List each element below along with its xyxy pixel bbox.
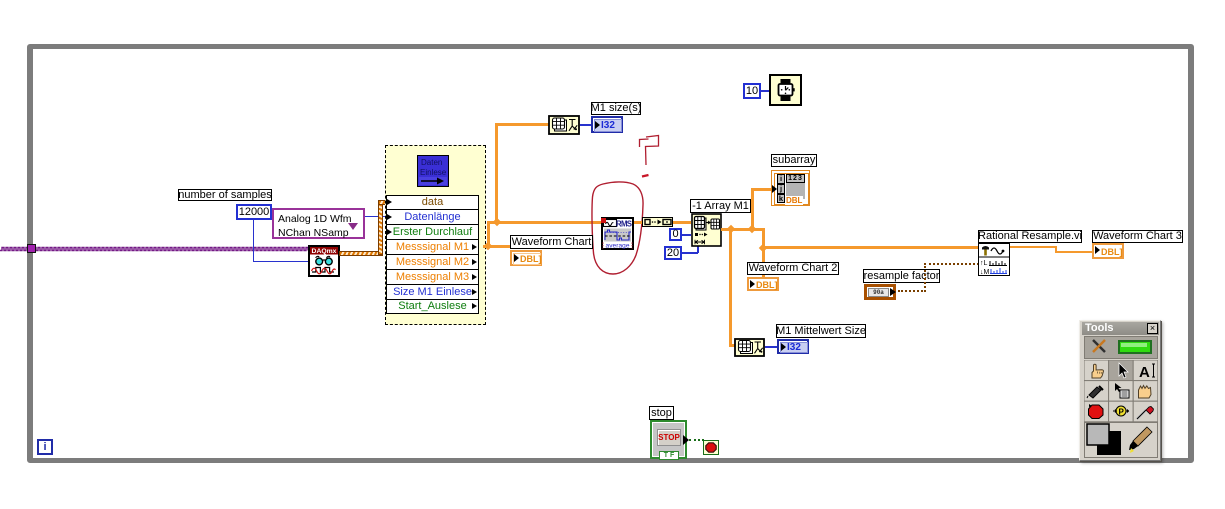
label number of samples (178, 189, 272, 201)
constant 0 (669, 228, 682, 241)
svg-text:Daten: Daten (421, 158, 442, 167)
svg-text:average: average (606, 243, 630, 250)
blue wire array size to I32 (580, 124, 592, 126)
row Start_Auslese (386, 299, 479, 314)
row Messsignal M1 (386, 239, 479, 255)
row Datenlaenge (386, 209, 479, 225)
I32 indicator M1 size(s) (591, 116, 623, 133)
wire vertical to array size (495, 123, 498, 223)
coercion dot on RMS input (601, 218, 606, 223)
array subset node (691, 213, 722, 247)
row Messsignal M3 (386, 269, 479, 285)
color area (1084, 422, 1158, 458)
label Rational Resample.vi (978, 230, 1082, 243)
label M1 size(s) (591, 102, 641, 115)
constant 20 (664, 246, 682, 260)
I32 indicator M1 Mittelwert Size (777, 339, 809, 354)
convert from dynamic data node (642, 217, 673, 227)
eyedropper (1137, 410, 1146, 419)
svg-text:RMS: RMS (616, 219, 632, 228)
blue wire to I32 (765, 346, 777, 348)
label M1 Mittelwert Size (776, 324, 866, 338)
waveform-array hatched wire DAQmx to data (339, 251, 383, 256)
red annotation flag (630, 130, 670, 185)
breakpoint octagon (1089, 405, 1104, 419)
polymorphic selector Analog 1D Wfm NChan NSamp (272, 208, 365, 239)
loop tunnel (purple) (27, 244, 36, 253)
wire vertical to upper branch (487, 221, 490, 248)
svg-text:↓M: ↓M (980, 269, 990, 276)
operate hand (1092, 364, 1103, 378)
horizontal to rational resample (762, 246, 978, 249)
probe (1116, 406, 1126, 416)
RMS express node (601, 217, 634, 250)
vertical down to array size 2 (729, 228, 732, 346)
iteration terminal i (37, 439, 53, 455)
wire spool (1089, 387, 1101, 398)
label subarray (771, 154, 817, 167)
row data (386, 195, 479, 210)
wire 20 to node (682, 252, 698, 254)
wire from-DDT to array subset (673, 221, 691, 224)
input arrows (387, 199, 392, 205)
svg-text:A: A (1139, 364, 1150, 381)
DAQmx Read node (308, 245, 340, 277)
Tools palette (1079, 320, 1161, 461)
label -1 Array M1 (690, 199, 751, 213)
constant 12000 (236, 204, 272, 220)
Wait (ms) node (769, 74, 802, 106)
junction (493, 218, 501, 226)
label resample factor (863, 269, 940, 283)
svg-text:DAQmx: DAQmx (312, 248, 337, 255)
tool grid (1084, 360, 1158, 422)
wire into DAQmx samples input (253, 261, 308, 262)
auto tool row (1084, 336, 1158, 359)
subarray array indicator (771, 170, 810, 206)
wire RMS to from-DDT (634, 221, 642, 224)
Array Size node 1 (548, 115, 580, 135)
DBL terminal chart2 (747, 277, 779, 291)
constant 10 (743, 83, 761, 99)
label Waveform Chart (510, 235, 593, 249)
svg-text:Einlese: Einlese (420, 168, 447, 177)
wire horizontal to array size (495, 123, 549, 126)
array size node 2 (734, 338, 765, 357)
output wire (1010, 246, 1057, 248)
junction (484, 242, 492, 250)
position arrow (1119, 363, 1128, 378)
Daten Einlese VI node (expanded with terminals) (385, 145, 486, 325)
red annotation ellipse around RMS (585, 175, 650, 280)
wire horizontal to RMS (487, 221, 602, 224)
title bar (1082, 322, 1159, 335)
wire 10 to wait (761, 90, 769, 92)
label Waveform Chart 2 (747, 262, 839, 275)
vertical up to subarray (751, 188, 754, 229)
svg-text:P: P (1119, 408, 1125, 417)
corner down at 763 (762, 228, 765, 249)
DAQmx task wire (purple zigzag) (0, 243, 310, 255)
wire 12000 to Datenlaenge (blue) (268, 216, 386, 217)
row Messsignal M2 (386, 254, 479, 270)
output wire of array subset (721, 228, 765, 231)
orange wire Messsignal M1 out (483, 245, 513, 248)
DBL terminal chart3 (1092, 243, 1124, 259)
loop condition terminal (703, 440, 719, 455)
resample factor control (864, 284, 896, 300)
menu arrow (1115, 383, 1122, 392)
Rational Resample node (978, 243, 1010, 276)
junction at (763,247) (759, 244, 767, 252)
selector dropdown triangle (348, 223, 358, 230)
wire 12000 down to DAQmx (253, 219, 254, 262)
junction at 752 (748, 225, 756, 233)
label stop (649, 406, 674, 420)
row Size M1 Einlese (386, 284, 479, 300)
stop button (650, 420, 687, 459)
while loop border (27, 44, 1194, 463)
output arrows (472, 244, 477, 250)
Daten Einlese icon (417, 155, 449, 187)
dotted wire resample factor to rational resample (898, 290, 926, 292)
DBL terminal chart1 (510, 250, 542, 266)
row Erster Durchlauf (386, 224, 479, 240)
svg-text:↑L: ↑L (980, 260, 988, 267)
dotted boolean wire (689, 439, 704, 441)
junction at 731 (727, 225, 735, 233)
label Waveform Chart 3 (1092, 230, 1183, 243)
vertical down to chart2 (762, 248, 765, 278)
scroll hand (1139, 386, 1152, 399)
wire 0 to node (682, 234, 691, 236)
